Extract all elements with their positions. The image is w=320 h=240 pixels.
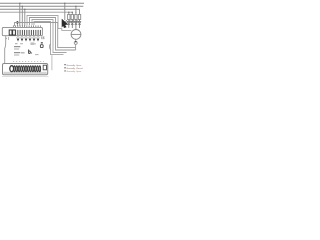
terminal strip outline bbox=[3, 64, 48, 75]
LED D3 bbox=[73, 20, 78, 30]
wire left drop from module to strip bbox=[5, 36, 6, 64]
small dark lock symbol top bbox=[41, 42, 43, 43]
gray blob symbol bbox=[30, 42, 34, 45]
wire drop x64.8 bbox=[64, 3, 66, 20]
svg-text:Normally Open: Normally Open bbox=[67, 70, 82, 73]
node junction dot C bbox=[24, 8, 26, 10]
wire routed W2 bbox=[30, 18, 76, 51]
wire drop to module pin B bbox=[21, 6, 23, 26]
wire bus rail 3 bbox=[0, 8, 80, 10]
component symbol S5 bbox=[33, 36, 36, 41]
LED D1 bbox=[66, 20, 71, 28]
strip shadow line bbox=[2, 76, 49, 78]
label text block 2 bbox=[14, 52, 20, 53]
tiny speck labels bbox=[15, 42, 18, 45]
node dot on rail1 bbox=[64, 2, 66, 4]
label dash bbox=[21, 51, 25, 54]
wire drop to module pin C bbox=[24, 9, 26, 26]
module top pin ticks bbox=[13, 25, 40, 27]
node junction dot A bbox=[19, 2, 21, 4]
wire stub bbox=[16, 21, 18, 26]
main module board outline bbox=[2, 27, 42, 35]
module display digit 1 bbox=[9, 30, 12, 35]
small marks under module left bbox=[6, 38, 7, 39]
LED D4 bbox=[76, 20, 81, 29]
dashed boundary bbox=[13, 61, 44, 63]
strip switch square bbox=[43, 65, 46, 70]
lamp bottom terminal bbox=[75, 39, 77, 41]
wire routed W4 bbox=[34, 22, 64, 55]
component symbol S1 bbox=[17, 36, 20, 41]
component symbol S6 bbox=[37, 36, 40, 41]
small arcs under module right corner bbox=[42, 36, 44, 39]
node junction dot D bbox=[16, 21, 18, 23]
svg-text:Normally Open: Normally Open bbox=[67, 64, 82, 67]
legend row 2 bbox=[64, 66, 66, 69]
svg-text:Normally Closed: Normally Closed bbox=[67, 67, 84, 70]
resistor R4 bbox=[79, 9, 81, 14]
terminal loops bbox=[10, 66, 41, 72]
resistor R1 bbox=[68, 12, 70, 14]
brace bbox=[49, 44, 51, 50]
component symbol S3 bbox=[25, 36, 28, 41]
node junction dot B bbox=[22, 5, 24, 7]
wire bus rail 1 (5V) bbox=[0, 2, 84, 4]
small text right bbox=[35, 53, 39, 56]
lamp L1 bbox=[71, 30, 81, 40]
LED D2 bbox=[69, 20, 74, 29]
small symbol b bbox=[29, 50, 31, 54]
legend row 3 bbox=[64, 70, 66, 73]
resistor R3 bbox=[75, 6, 77, 14]
label text block 1 bbox=[14, 46, 20, 47]
wire bus rail 2 bbox=[0, 5, 83, 7]
resistor R2 bbox=[71, 12, 73, 14]
wire drop to module pin A bbox=[19, 3, 21, 26]
wire faint drop bbox=[51, 55, 53, 70]
legend row 1 bbox=[64, 63, 66, 66]
small dark lock symbol body bbox=[40, 45, 43, 48]
module pin comb bbox=[16, 30, 41, 35]
module display digit 2 bbox=[13, 30, 16, 35]
cursor arrow annotation bbox=[62, 19, 68, 27]
component symbol S2 bbox=[21, 36, 24, 41]
component symbol S4 bbox=[29, 36, 32, 41]
wire routed W1 bbox=[27, 16, 71, 31]
wire lamp riser bbox=[75, 44, 77, 50]
wire routed W5 bbox=[15, 23, 76, 48]
wire bus rail 4 (GND) bbox=[0, 11, 72, 13]
wire routed W3 bbox=[32, 20, 67, 53]
terminal strip lower band bbox=[4, 72, 47, 74]
